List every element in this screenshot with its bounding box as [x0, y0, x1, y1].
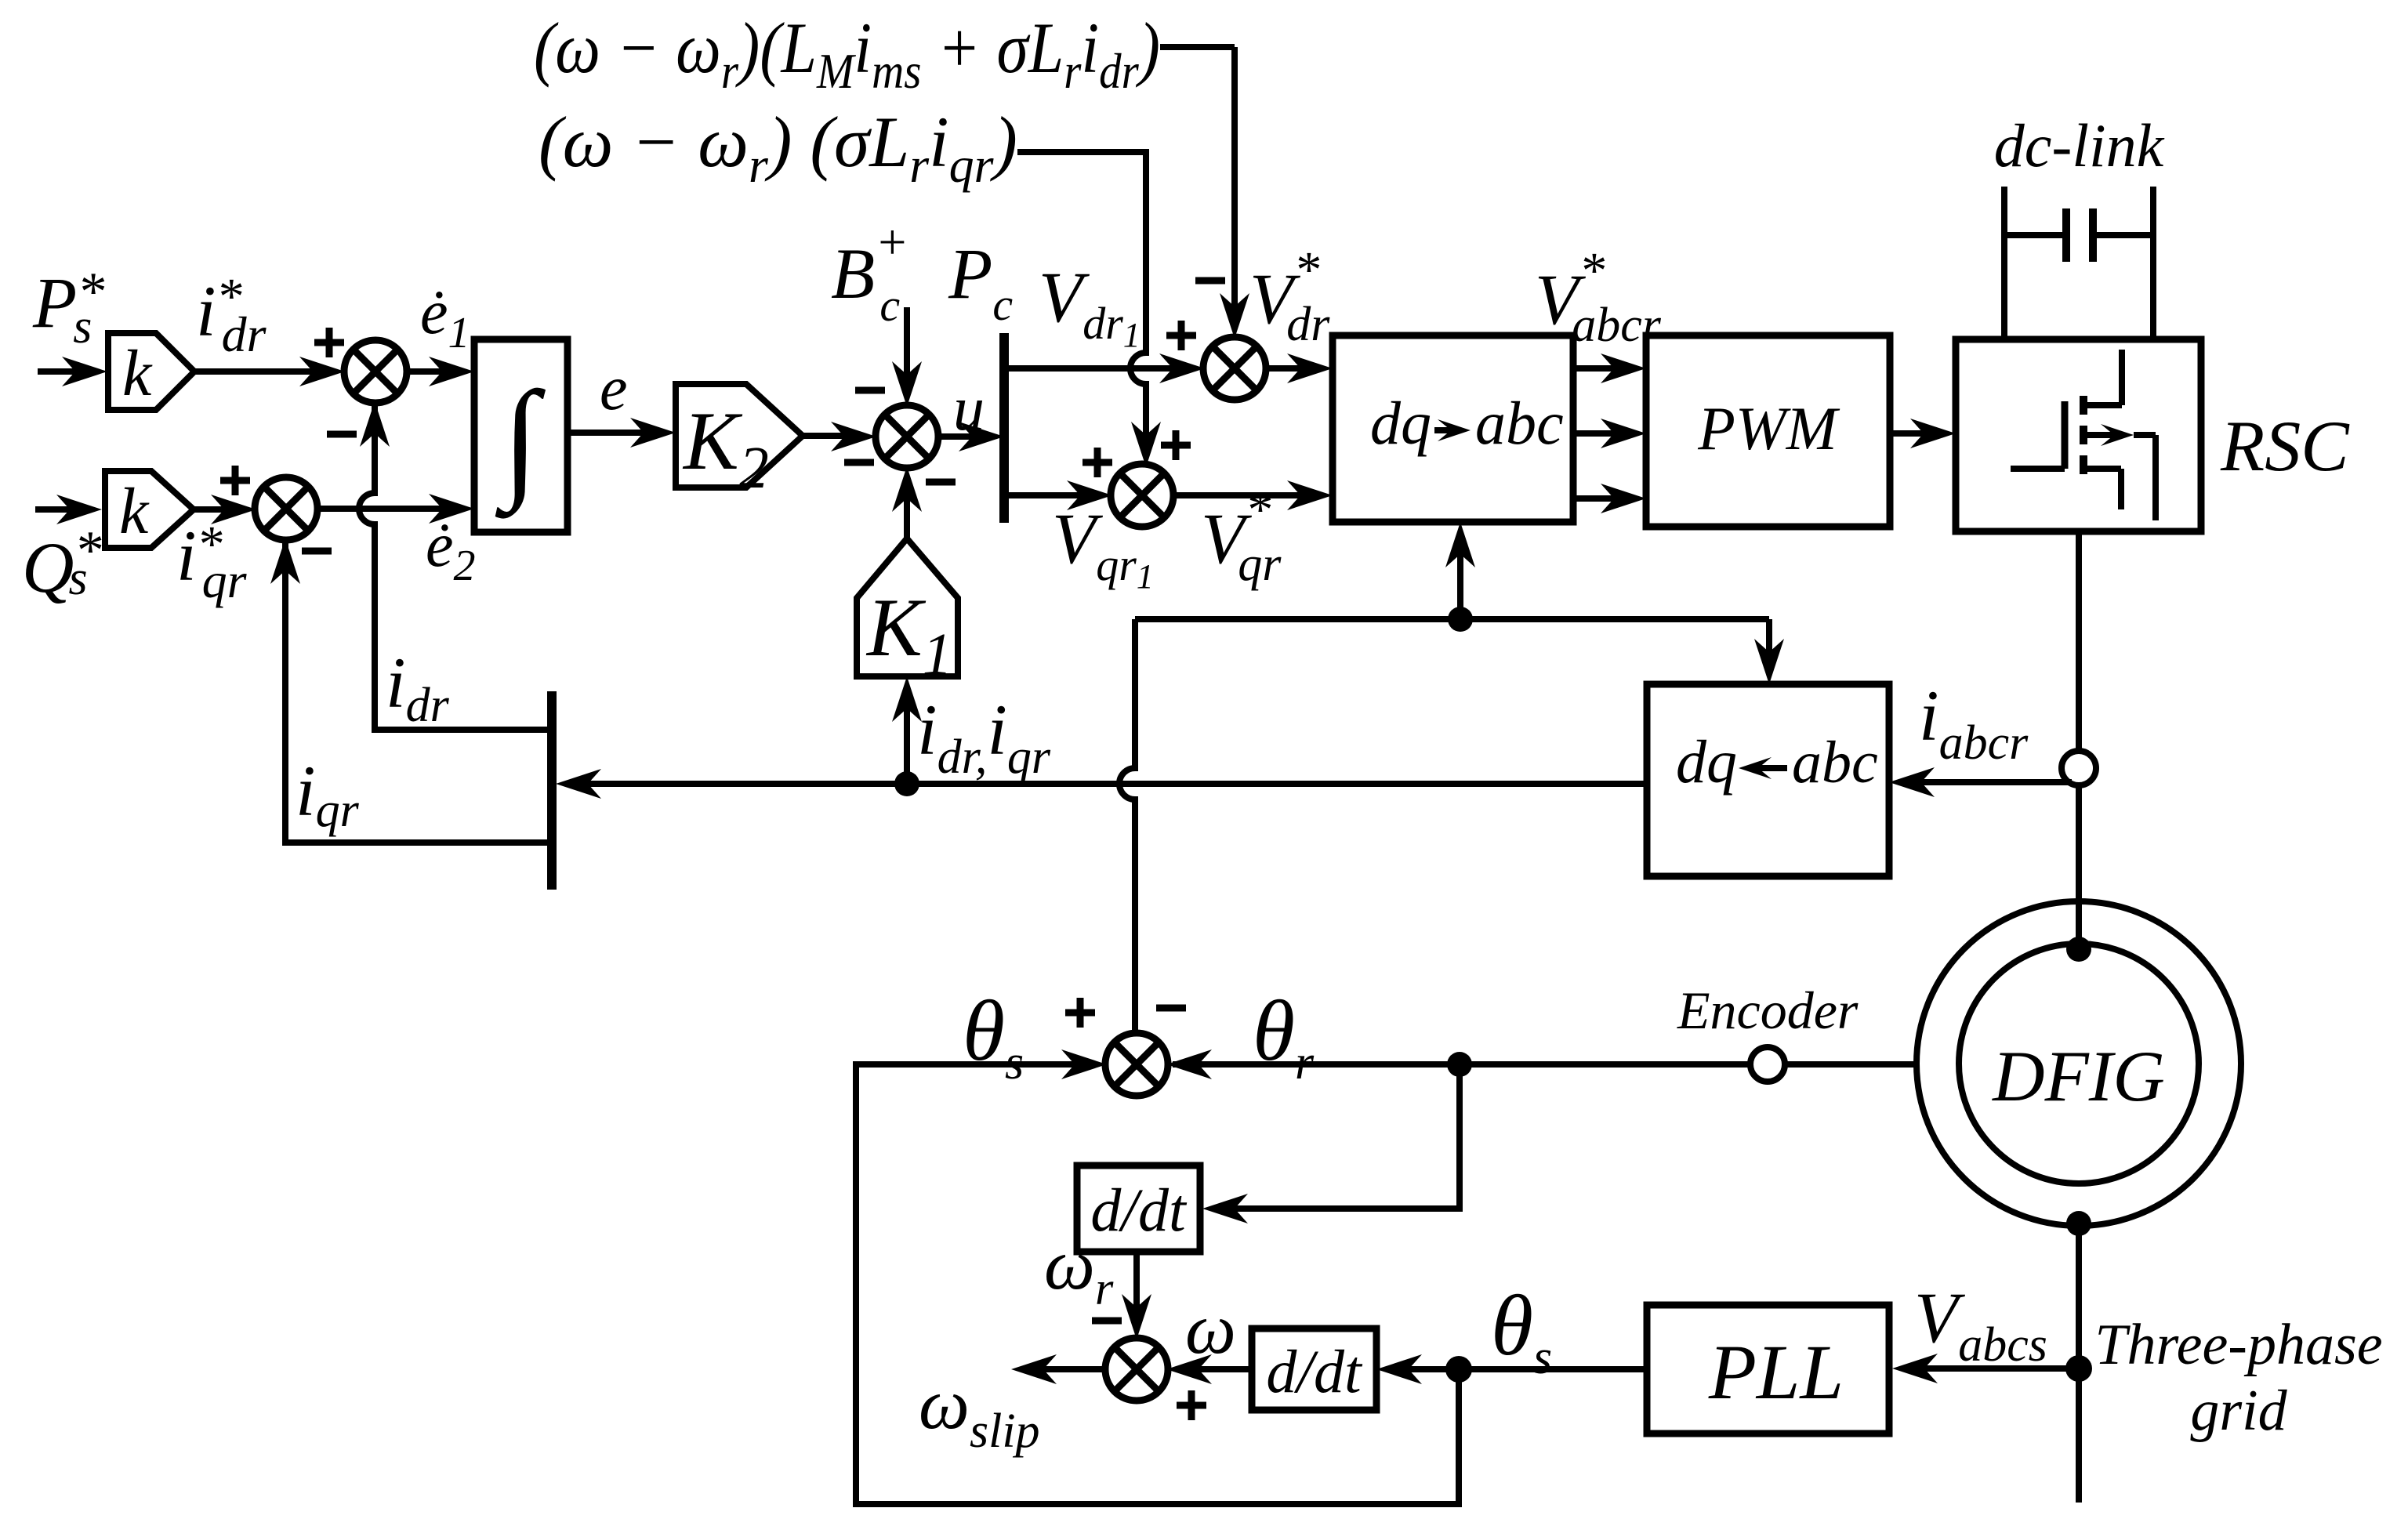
wire S4 to dqabc: [1264, 365, 1319, 372]
block PWM: [1646, 335, 1890, 527]
DFIG outer circle: [1917, 901, 2241, 1226]
sign - above S3: [855, 387, 885, 394]
wire S5 to dqabc: [1172, 492, 1319, 498]
block dq-from-abc: [1647, 684, 1889, 876]
wire wslip output: [1024, 1366, 1107, 1372]
sign + left of S5: [1083, 459, 1112, 466]
svg-text:grid: grid: [2190, 1379, 2287, 1443]
junction dot theta-r: [1447, 1052, 1472, 1077]
sign + at S4: [1166, 332, 1196, 339]
sign + at S2: [220, 477, 250, 484]
junction dot at DFIG rotor: [2066, 937, 2091, 962]
wires dqabc to PWM: [1573, 365, 1633, 372]
svg-text:∫: ∫: [495, 364, 546, 519]
svg-text:(ω − ωr) (σLriqr): (ω − ωr) (σLriqr): [539, 102, 1017, 193]
wire splitter to S4: [1004, 365, 1191, 372]
wire Bc+Pc into S3: [904, 307, 910, 393]
wire formula1 feed: [1160, 44, 1235, 50]
wire i*dr: [194, 368, 329, 375]
gain block k (lower): [105, 471, 194, 548]
svg-text:ω: ω: [1185, 1289, 1236, 1368]
svg-text:k: k: [122, 337, 153, 410]
transistor inside RSC: [2119, 350, 2125, 405]
wire PWM to RSC: [1890, 430, 1942, 437]
wire theta down into dq-from-abc: [1766, 619, 1772, 671]
sign - at S2: [302, 548, 332, 555]
svg-text:PLL: PLL: [1708, 1329, 1844, 1416]
wire Vabcs to PLL: [1906, 1365, 2079, 1372]
block dq-to-abc: [1333, 335, 1573, 522]
wire e to K2: [568, 430, 662, 436]
wire idr,iqr to K1: [904, 690, 910, 784]
wire theta to transforms: [1135, 616, 1769, 622]
wire formula2 feed with hop: [1017, 152, 1146, 454]
sign + above-right of S5: [1161, 442, 1191, 449]
svg-text:abc: abc: [1475, 389, 1564, 457]
wire dq-from-abc output to bus: [569, 781, 1647, 787]
summing junction S3 (u): [876, 405, 938, 468]
svg-text:d/dt: d/dt: [1090, 1176, 1188, 1244]
svg-text:DFIG: DFIG: [1991, 1036, 2165, 1116]
wire e1 to integrator: [405, 368, 461, 375]
summing junction S4 (Vdr*): [1203, 337, 1266, 400]
summing junction S7 (wslip): [1105, 1338, 1168, 1401]
wire ddt2 to S7: [1180, 1366, 1252, 1372]
wire P*s input: [38, 368, 94, 375]
summing junction S1 (e1): [344, 340, 407, 403]
wire DFIG to grid: [2076, 1223, 2082, 1503]
junction dot grid tap: [2065, 1355, 2092, 1382]
wire e2 to integrator: [316, 506, 461, 512]
junction dot theta branch: [1448, 607, 1473, 632]
sign - at S6: [1156, 1005, 1186, 1012]
pickup circle iabcr: [2062, 751, 2096, 785]
wire K1 to S3: [904, 480, 910, 538]
wire encoder line: [1173, 1061, 1917, 1068]
svg-text:d/dt: d/dt: [1266, 1337, 1363, 1405]
sign - at S7: [1092, 1318, 1122, 1325]
gain block K1: [857, 538, 958, 676]
gain block K2: [676, 384, 803, 488]
sign + at S1: [314, 339, 344, 346]
summing junction S6 (theta): [1105, 1033, 1168, 1096]
block PLL: [1647, 1305, 1889, 1434]
sign - right-below S3: [926, 479, 956, 486]
wire RSC to iabcr pickup: [2076, 531, 2082, 751]
dc-link rail right: [2150, 187, 2156, 339]
wire theta-s loop: [856, 1064, 1459, 1504]
summing junction S5 (Vqr*): [1111, 464, 1173, 527]
svg-text:PWM: PWM: [1697, 394, 1840, 462]
junction dot theta-s: [1445, 1356, 1472, 1383]
dc-link rail left: [2001, 187, 2007, 339]
wire thetar to ddt1: [1216, 1064, 1460, 1209]
block RSC box: [1956, 339, 2201, 531]
wire iqr feedback: [285, 538, 549, 843]
svg-text:abc: abc: [1792, 730, 1878, 796]
wire i*qr to S2: [194, 506, 243, 513]
sign + at S7: [1177, 1402, 1206, 1409]
svg-text:Encoder: Encoder: [1677, 981, 1859, 1040]
wire theta up into dq-to-abc: [1457, 535, 1463, 619]
wire pickup to DFIG: [2076, 785, 2082, 944]
wire idr feedback with hop: [359, 401, 549, 730]
wire PLL to ddt2: [1390, 1366, 1647, 1372]
integrator block: [474, 339, 568, 532]
block ddt2: [1252, 1329, 1376, 1410]
junction dot idr-iqr/K1: [894, 771, 919, 796]
sign - above S4: [1195, 277, 1225, 285]
svg-text:Three-phase: Three-phase: [2094, 1313, 2382, 1377]
svg-text:dq: dq: [1370, 389, 1431, 457]
svg-text:dc-link: dc-link: [1994, 111, 2165, 179]
DFIG inner circle: [1959, 944, 2199, 1184]
gain block k (upper): [108, 333, 194, 410]
svg-text:RSC: RSC: [2220, 406, 2350, 486]
sign - left-below S3: [844, 459, 874, 466]
wire K2 to S3: [803, 433, 863, 439]
junction dot DFIG stator: [2066, 1211, 2091, 1236]
wire u to splitter: [937, 433, 991, 440]
splitter bar: [999, 333, 1009, 523]
bus bar: [547, 691, 557, 890]
summing junction S2 (e2): [255, 477, 317, 540]
wire iabcr to dq-from-abc: [1902, 779, 2072, 785]
wire splitter to S5: [1004, 492, 1099, 498]
svg-text:dq: dq: [1676, 727, 1737, 796]
sign + at S6: [1065, 1010, 1095, 1017]
sign - at S1: [327, 431, 357, 438]
wire wr to S7: [1133, 1252, 1140, 1326]
svg-text:k: k: [119, 475, 150, 548]
wire theta-slip vertical with hop: [1119, 619, 1135, 1035]
svg-text:e: e: [600, 354, 628, 423]
wire Q*s input: [35, 506, 89, 513]
block ddt1: [1077, 1165, 1200, 1252]
dc-link capacitor: [2062, 208, 2070, 262]
encoder pickup circle: [1750, 1047, 1785, 1082]
